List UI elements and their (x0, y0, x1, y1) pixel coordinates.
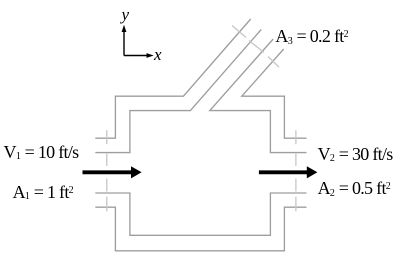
wire: outer wall contour, left pipe bottom around box bottom to right pipe bottom (95, 207, 306, 251)
node: break tick on diagonal pipe 3 outer-left line (232, 26, 246, 38)
label: V2 = 30 ft/s (318, 144, 393, 165)
node: break tick column on outlet pipe 2 (295, 130, 297, 211)
arrow: inlet velocity V1 (83, 166, 142, 178)
wire: outer wall contour, left pipe top to diagonal A (95, 19, 250, 138)
svg-text:x: x (153, 45, 162, 64)
label: A2 = 0.5 ft2 (318, 178, 391, 199)
svg-text:y: y (120, 5, 130, 24)
label: A1 = 1 ft2 (13, 182, 74, 203)
axis: x-axis with arrowhead (124, 53, 154, 58)
node: break tick on diagonal pipe 3 outer-right line (268, 57, 279, 68)
wire: inner wall contour, diagonal C to right pipe inner top (210, 39, 307, 153)
node: break tick on diagonal pipe 3 inner lines (249, 41, 264, 53)
wire: inner wall contour, left pipe inner top to diagonal B (95, 30, 261, 153)
node: break tick column on inlet pipe 1 (106, 130, 108, 211)
axis: y-axis with arrowhead (122, 25, 127, 56)
wire: outer wall contour, diagonal D to right pipe top (242, 49, 307, 138)
arrow: outlet velocity V2 (259, 166, 318, 178)
label: V1 = 10 ft/s (4, 142, 79, 163)
label: A3 = 0.2 ft2 (275, 26, 348, 47)
wire: inner wall contour, left pipe inner bottom around to right pipe inner bottom (95, 193, 306, 235)
